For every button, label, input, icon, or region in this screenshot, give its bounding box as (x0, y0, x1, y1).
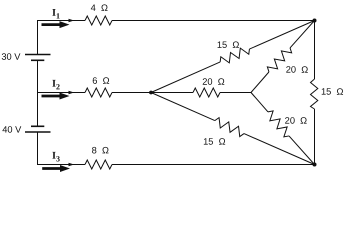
resistor 6 ohm (85, 88, 112, 97)
wire middle branch to node A (112, 92, 151, 94)
svg-text:15 Ω: 15 Ω (203, 137, 226, 147)
wire 20 ohm to node B (220, 92, 251, 94)
svg-text:20 Ω: 20 Ω (285, 116, 308, 126)
wire 15 ohm to bottom-right node (244, 134, 315, 165)
resistor 15 ohm lower diagonal (213, 117, 246, 138)
svg-text:I2: I2 (52, 79, 60, 92)
current direction arrowhead on top wire (69, 19, 75, 23)
node bottom-right junction dot (313, 163, 317, 167)
wire right bus lower segment (314, 109, 316, 165)
svg-text:20 Ω: 20 Ω (286, 65, 309, 75)
wire right bus upper segment (314, 21, 316, 80)
wire node A to top-right (lower part of diagonal) (151, 62, 220, 93)
current direction arrowhead on bottom wire (69, 163, 75, 167)
svg-text:30 V: 30 V (1, 52, 21, 62)
wire upper 20 ohm to top-right node (290, 21, 315, 48)
wire node A to bottom-right (upper part of diagonal) (151, 93, 215, 121)
svg-text:20 Ω: 20 Ω (202, 77, 225, 87)
wire left bus upper segment (37, 21, 39, 55)
current arrow I1 (42, 21, 70, 28)
battery V2 40 V (25, 126, 51, 132)
wire 15 ohm to top-right node (249, 21, 314, 50)
wire top branch right (112, 20, 315, 22)
svg-text:8 Ω: 8 Ω (92, 145, 109, 155)
battery V1 30 V (25, 55, 51, 61)
wire left bus lower segment (37, 132, 39, 165)
wire node B to upper 20 ohm (251, 72, 269, 93)
current arrow I3 (42, 165, 70, 172)
svg-text:40 V: 40 V (2, 125, 22, 135)
svg-text:6 Ω: 6 Ω (92, 76, 109, 86)
node top-right junction dot (313, 19, 317, 23)
svg-text:15 Ω: 15 Ω (217, 40, 240, 50)
current direction arrowhead on middle wire (69, 91, 75, 95)
resistor 15 ohm right vertical (311, 79, 318, 109)
svg-text:I3: I3 (52, 151, 60, 164)
svg-text:15 Ω: 15 Ω (321, 87, 344, 97)
resistor 20 ohm middle (193, 88, 220, 97)
wire bottom branch left (37, 164, 85, 166)
svg-text:I1: I1 (52, 8, 60, 21)
wire left bus middle segment (37, 60, 39, 126)
resistor 8 ohm (85, 160, 112, 169)
wire middle branch left (37, 92, 85, 94)
wire bottom branch right (112, 164, 315, 166)
current arrow I2 (42, 93, 70, 100)
resistor 20 ohm lower right diagonal (265, 109, 293, 139)
wire lower 20 ohm to bottom-right node (289, 136, 315, 165)
resistor 20 ohm upper right diagonal (266, 45, 294, 75)
svg-text:4 Ω: 4 Ω (91, 3, 108, 13)
wire top branch left (37, 20, 85, 22)
resistor 4 ohm (85, 16, 112, 25)
resistor 15 ohm upper diagonal (218, 45, 251, 66)
wire node B to lower 20 ohm (251, 93, 268, 112)
wire node A to 20 ohm resistor (151, 92, 193, 94)
node A junction dot (149, 91, 153, 95)
